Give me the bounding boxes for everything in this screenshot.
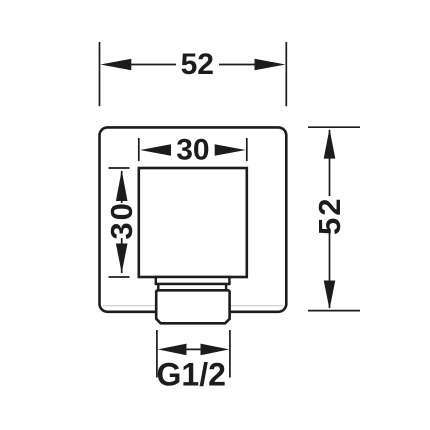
svg-text:52: 52 (181, 48, 214, 81)
svg-text:30: 30 (176, 134, 209, 167)
svg-text:52: 52 (312, 197, 347, 235)
svg-text:30: 30 (104, 201, 139, 239)
svg-text:G1/2: G1/2 (157, 356, 226, 392)
